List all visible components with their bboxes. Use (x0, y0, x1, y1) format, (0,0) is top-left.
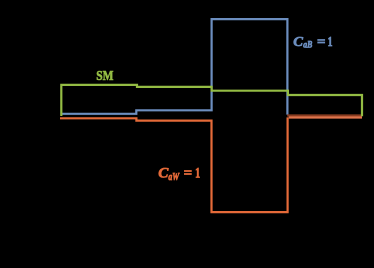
salmon orange tail under dark segment (289, 116, 362, 118)
orange CaW step histogram (60, 117, 288, 212)
svg-text:1: 1 (328, 34, 333, 49)
blue CaB step histogram (62, 19, 288, 115)
svg-text:aB: aB (303, 41, 312, 51)
svg-text:aW: aW (168, 172, 180, 183)
label CaB = 1 (293, 34, 332, 51)
svg-text:SM: SM (96, 69, 113, 84)
svg-text:C: C (158, 166, 168, 182)
svg-text:1: 1 (195, 166, 200, 182)
label CaW = 1 (158, 166, 200, 183)
svg-text:=: = (317, 34, 326, 49)
svg-text:C: C (293, 34, 303, 49)
green SM step histogram (61, 85, 362, 116)
dark red overlap segment (right tail) (287, 114, 362, 116)
svg-text:=: = (184, 166, 193, 182)
